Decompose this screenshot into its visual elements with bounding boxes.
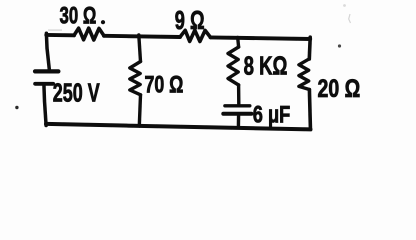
svg-text:20 Ω: 20 Ω — [318, 75, 361, 103]
svg-text:250 V: 250 V — [53, 78, 100, 107]
svg-text:30 Ω: 30 Ω — [60, 2, 97, 29]
svg-text:70 Ω: 70 Ω — [145, 72, 184, 98]
svg-text:9 Ω: 9 Ω — [175, 6, 205, 35]
svg-text:8 KΩ: 8 KΩ — [244, 51, 288, 80]
svg-text:6 μF: 6 μF — [253, 101, 290, 128]
